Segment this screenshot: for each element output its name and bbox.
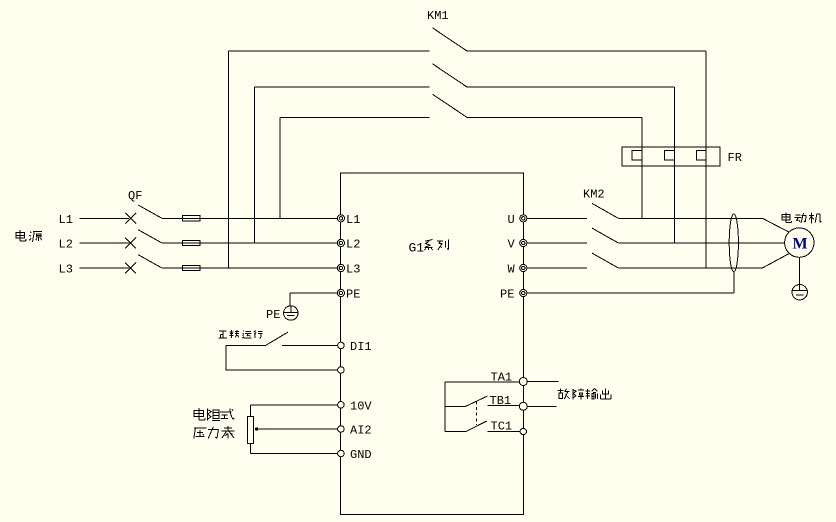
svg-text:GND: GND [350, 448, 372, 462]
inverter box G1 [341, 173, 524, 514]
svg-text:L3: L3 [59, 262, 73, 276]
terminal GND [338, 450, 345, 457]
KM1 blade 1 [433, 28, 468, 51]
terminal TB1 [519, 402, 527, 410]
QF blade L3 [138, 255, 162, 268]
wiper dot [255, 427, 258, 430]
wire L1 to box [162, 217, 337, 219]
svg-text:L2: L2 [59, 238, 73, 252]
terminal PE left [337, 289, 344, 296]
fuse FU1 [183, 216, 200, 221]
terminal 10V [338, 402, 345, 409]
switch blade DI1 [266, 332, 289, 345]
terminal TA1 [519, 378, 527, 386]
wire L1 input [79, 217, 129, 219]
QF blade L2 [138, 230, 162, 243]
label xilie of G1series 系列 [424, 240, 432, 251]
svg-text:PE: PE [266, 308, 280, 322]
svg-text:DI1: DI1 [350, 340, 372, 354]
svg-text:TB1: TB1 [490, 394, 512, 408]
wire riser L1 to KM1-3 [279, 117, 281, 218]
wire W diagonal [762, 254, 788, 268]
wire KM1 row1 left [228, 50, 429, 52]
label zhengzhuan yunxing 正转运行 [218, 331, 227, 338]
wire TB1 out [527, 405, 557, 407]
wire U to motor bend [618, 217, 762, 219]
wire pot bottom [250, 444, 252, 454]
motor M [785, 228, 814, 257]
terminal PE right [520, 289, 527, 296]
svg-text:PE: PE [500, 287, 514, 301]
terminal COM [338, 367, 345, 374]
wire KM1 row2 left [255, 86, 430, 88]
svg-text:FR: FR [728, 151, 742, 165]
terminal DI1 [338, 342, 345, 349]
wire KM1 row3 left [280, 116, 430, 118]
wire TB1 stub [445, 405, 466, 407]
wire U diagonal [762, 218, 788, 232]
svg-text:L1: L1 [346, 213, 360, 227]
svg-text:L3: L3 [346, 262, 360, 276]
wire TC1 stub [445, 431, 466, 433]
wire PE branch left [290, 293, 337, 306]
relay blade TB1 [466, 396, 488, 406]
wire TA1 out [527, 381, 558, 383]
svg-text:G1: G1 [409, 241, 425, 256]
terminal L2 [337, 239, 344, 246]
wire riser L2 to KM1-2 [254, 87, 256, 243]
wire GND [251, 453, 338, 455]
KM1 blade 3 [433, 94, 468, 117]
wire AI2 [257, 428, 338, 430]
svg-text:W: W [508, 262, 516, 276]
wire PE right [527, 272, 734, 293]
KM2 blade U [592, 203, 618, 218]
wire W to motor bend [618, 267, 762, 269]
FR heater 1 [632, 150, 642, 160]
cable shield ellipse [729, 214, 738, 272]
KM2 blade W [592, 253, 618, 268]
label guzhang shuchu 故障输出 [558, 389, 570, 399]
wire riser L3 to KM1-1 [227, 51, 229, 268]
wire pot top [250, 405, 252, 416]
potentiometer RP [248, 417, 254, 444]
wire V to motor [618, 242, 784, 244]
label yalibiao 压力表 [194, 428, 207, 438]
ground motor [792, 285, 807, 295]
thermal relay FR box [622, 147, 720, 166]
svg-text:L1: L1 [59, 213, 73, 227]
svg-text:M: M [793, 236, 808, 253]
wire drop to U row [641, 117, 643, 218]
fuse FU2 [183, 240, 200, 245]
wire TB1 contact [488, 404, 520, 406]
relay link dashed [475, 402, 477, 426]
relay common vertical [444, 382, 446, 432]
terminal U [520, 215, 527, 222]
breaker cross L1 [125, 213, 136, 224]
terminal W [520, 264, 527, 271]
wire 10V [251, 404, 338, 406]
svg-text:KM2: KM2 [583, 188, 605, 202]
wire L2 input [79, 242, 129, 244]
wire KM1 row1 right [467, 50, 706, 52]
svg-text:TC1: TC1 [491, 420, 513, 434]
wire TA1 [445, 381, 520, 383]
svg-text:U: U [508, 213, 515, 227]
svg-text:KM1: KM1 [427, 9, 449, 23]
label diandongji 电动机 [782, 212, 792, 222]
terminal L3 [337, 264, 344, 271]
wire L2 to box [162, 242, 337, 244]
wire drop to V row [674, 87, 676, 243]
terminal AI2 [338, 426, 345, 433]
FR heater 3 [696, 150, 706, 160]
ground PE left [284, 306, 297, 316]
fuse FU3 [183, 265, 200, 270]
svg-text:AI2: AI2 [350, 424, 372, 438]
wire KM1 row3 right [467, 116, 642, 118]
wire DI1 right [282, 345, 338, 347]
wire DI1 return [226, 346, 337, 371]
svg-text:TA1: TA1 [491, 370, 513, 384]
wire DI1 switch left [226, 345, 266, 347]
wire motor ground [798, 257, 800, 284]
svg-text:L2: L2 [346, 238, 360, 252]
breaker cross L3 [125, 263, 136, 274]
breaker cross L2 [125, 238, 136, 249]
svg-text:10V: 10V [350, 400, 372, 414]
wire U to KM2 [527, 217, 587, 219]
KM1 blade 2 [433, 64, 468, 87]
wire L3 to box [162, 267, 337, 269]
svg-text:V: V [508, 238, 516, 252]
KM2 blade V [592, 228, 618, 243]
QF blade L1 [138, 205, 162, 218]
terminal L1 [337, 215, 344, 222]
svg-text:QF: QF [128, 189, 142, 203]
terminal TC1 [520, 428, 526, 434]
svg-text:PE: PE [346, 287, 360, 301]
FR heater 2 [665, 150, 675, 160]
wire drop to W row [705, 51, 707, 268]
wire TC1 contact [488, 431, 521, 433]
wire V to KM2 [527, 242, 587, 244]
label dianzushi 电阻式 [194, 408, 205, 420]
wire W to KM2 [527, 267, 587, 269]
label dianyuan 电源 [16, 230, 26, 241]
wire L3 input [79, 267, 129, 269]
terminal V [520, 239, 527, 246]
relay blade TC1 [466, 421, 487, 432]
wire KM1 row2 right [467, 86, 675, 88]
